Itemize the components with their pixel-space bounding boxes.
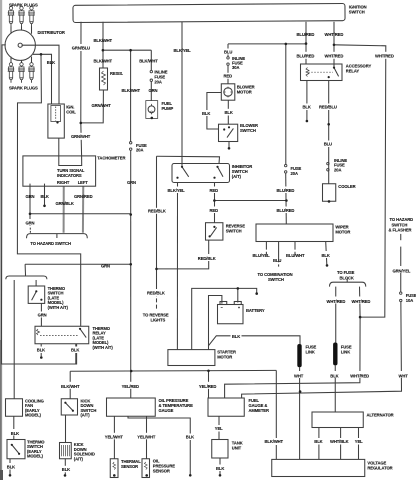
svg-text:BLK/WHT: BLK/WHT [139, 58, 158, 63]
svg-text:BLU/RED: BLU/RED [297, 53, 315, 58]
svg-text:(A/T): (A/T) [232, 174, 242, 179]
svg-text:SPARK PLUGS: SPARK PLUGS [9, 2, 38, 7]
svg-text:BLK: BLK [232, 334, 240, 339]
svg-text:YEL/RED: YEL/RED [199, 384, 216, 389]
svg-text:GRN: GRN [127, 180, 136, 185]
svg-text:GRN: GRN [26, 220, 35, 225]
svg-text:BATTERY: BATTERY [246, 308, 265, 313]
svg-text:WHT/RED: WHT/RED [350, 374, 369, 379]
svg-text:COIL: COIL [66, 110, 76, 115]
svg-text:INDICATORS: INDICATORS [57, 173, 82, 178]
svg-text:20A: 20A [291, 171, 298, 176]
svg-text:TO HAZARD SWITCH: TO HAZARD SWITCH [30, 241, 71, 246]
svg-text:SPARK PLUGS: SPARK PLUGS [9, 86, 38, 91]
svg-text:FUEL: FUEL [162, 101, 173, 106]
svg-text:BLK: BLK [330, 374, 338, 379]
svg-text:BLU: BLU [273, 258, 281, 263]
svg-text:BLK: BLK [7, 464, 15, 469]
svg-text:RELAY: RELAY [346, 69, 360, 74]
svg-text:TO REVERSE: TO REVERSE [143, 312, 169, 317]
svg-text:WHT/RED: WHT/RED [325, 53, 344, 58]
svg-text:BLK: BLK [202, 111, 210, 116]
svg-text:GRN/WHT: GRN/WHT [92, 103, 112, 108]
svg-text:MOTOR: MOTOR [237, 90, 252, 95]
svg-text:TO HAZARD: TO HAZARD [390, 217, 414, 222]
svg-text:BLK/YEL: BLK/YEL [168, 188, 186, 193]
svg-text:BLU: BLU [224, 49, 232, 54]
svg-text:BLK/WHT: BLK/WHT [265, 439, 284, 444]
svg-text:BLU/RED: BLU/RED [297, 32, 315, 37]
svg-text:SENSOR: SENSOR [121, 464, 138, 469]
svg-text:(A/T): (A/T) [81, 413, 91, 418]
svg-text:BLK: BLK [303, 105, 311, 110]
svg-text:BLU/RED: BLU/RED [277, 188, 295, 193]
svg-text:BLK: BLK [41, 194, 49, 199]
svg-text:WHT/BLK: WHT/BLK [330, 439, 349, 444]
svg-text:YEL: YEL [215, 426, 223, 431]
svg-text:BLK: BLK [62, 467, 70, 472]
svg-text:LEFT: LEFT [78, 180, 89, 185]
svg-text:GRN/YEL: GRN/YEL [393, 269, 411, 274]
svg-text:BLK/YEL: BLK/YEL [174, 48, 192, 53]
svg-text:LINK: LINK [341, 350, 350, 355]
svg-text:BLK: BLK [216, 466, 224, 471]
svg-text:GRN: GRN [149, 88, 158, 93]
svg-text:WHT/RED: WHT/RED [327, 299, 346, 304]
svg-text:GRN/WHT: GRN/WHT [71, 134, 91, 139]
svg-text:REGULATOR: REGULATOR [367, 466, 392, 471]
svg-text:MODEL): MODEL) [27, 454, 44, 459]
svg-text:MOTOR: MOTOR [217, 355, 232, 360]
svg-text:GRN/BLU: GRN/BLU [72, 45, 90, 50]
svg-text:30A: 30A [232, 65, 239, 70]
svg-text:RESIS.: RESIS. [110, 71, 123, 76]
svg-text:GRN: GRN [38, 313, 47, 318]
svg-text:WHT/RED: WHT/RED [352, 299, 371, 304]
svg-text:(A/T): (A/T) [74, 456, 84, 461]
svg-text:SENSOR: SENSOR [153, 468, 170, 473]
svg-text:TO COMBINATION: TO COMBINATION [258, 272, 293, 277]
svg-text:LINK: LINK [306, 350, 315, 355]
svg-text:DISTRIBUTOR: DISTRIBUTOR [38, 30, 65, 35]
svg-text:10A: 10A [406, 298, 413, 303]
svg-text:20A: 20A [334, 167, 341, 172]
svg-text:MODEL): MODEL) [25, 413, 42, 418]
svg-text:COOLER: COOLER [338, 184, 355, 189]
svg-text:GRN: GRN [26, 194, 35, 199]
svg-text:RED: RED [224, 74, 233, 79]
svg-text:& FLASHER: & FLASHER [389, 228, 412, 233]
svg-text:BLOCK: BLOCK [340, 276, 354, 281]
svg-text:BLK/WHT: BLK/WHT [94, 58, 113, 63]
svg-text:SWITCH: SWITCH [240, 128, 256, 133]
svg-text:BLU/RED: BLU/RED [277, 208, 295, 213]
svg-text:BLK: BLK [225, 110, 233, 115]
svg-text:RED: RED [210, 208, 219, 213]
svg-text:RED/BLK: RED/BLK [198, 256, 216, 261]
svg-text:RED: RED [210, 188, 219, 193]
svg-text:YEL/RED: YEL/RED [122, 384, 139, 389]
svg-text:PUMP: PUMP [162, 106, 174, 111]
svg-text:BLK: BLK [71, 348, 79, 353]
svg-text:ALTERNATOR: ALTERNATOR [367, 412, 394, 417]
svg-text:IGN.: IGN. [66, 104, 74, 109]
svg-text:MOTOR: MOTOR [335, 230, 350, 235]
svg-text:BLK/WHT: BLK/WHT [94, 38, 113, 43]
svg-text:BLK: BLK [314, 439, 322, 444]
svg-text:BLU/YEL: BLU/YEL [253, 253, 271, 258]
svg-text:WHT: WHT [294, 374, 304, 379]
svg-text:TO FUSE: TO FUSE [337, 270, 355, 275]
svg-text:BLK: BLK [11, 431, 19, 436]
svg-text:LIGHTS: LIGHTS [151, 318, 166, 323]
svg-text:YEL/WHT: YEL/WHT [105, 434, 124, 439]
svg-text:RED/BLU: RED/BLU [319, 105, 337, 110]
svg-text:BLU: BLU [324, 142, 332, 147]
svg-text:SWITCH: SWITCH [349, 10, 365, 15]
svg-text:BLK: BLK [47, 60, 55, 65]
svg-text:BLU/WHT: BLU/WHT [286, 253, 305, 258]
svg-text:GRN/BLK: GRN/BLK [56, 201, 74, 206]
svg-text:YEL/WHT: YEL/WHT [137, 434, 156, 439]
svg-text:YEL: YEL [355, 439, 363, 444]
svg-text:GRN: GRN [101, 263, 110, 268]
svg-text:WHT: WHT [399, 374, 409, 379]
svg-text:UNIT: UNIT [232, 446, 242, 451]
svg-text:TACHOMETER: TACHOMETER [97, 156, 125, 161]
svg-text:RED/BLK: RED/BLK [148, 209, 166, 214]
svg-text:BLK: BLK [186, 435, 194, 440]
svg-text:SWITCH: SWITCH [226, 229, 242, 234]
svg-text:(WITH A/T): (WITH A/T) [93, 345, 114, 350]
svg-text:20A: 20A [136, 148, 143, 153]
svg-text:BLK/WHT: BLK/WHT [122, 88, 141, 93]
svg-text:SWITCH: SWITCH [392, 222, 408, 227]
svg-text:BLK: BLK [37, 348, 45, 353]
svg-text:BLK/WHT: BLK/WHT [61, 384, 80, 389]
svg-text:(WITH A/T): (WITH A/T) [48, 305, 69, 310]
svg-text:BLK: BLK [322, 253, 330, 258]
svg-text:SWITCH: SWITCH [268, 277, 284, 282]
svg-text:WHT/RED: WHT/RED [325, 32, 344, 37]
svg-text:RED/BLK: RED/BLK [147, 291, 165, 296]
svg-text:AMMETER: AMMETER [249, 408, 269, 413]
svg-text:RIGHT: RIGHT [57, 180, 70, 185]
svg-text:20A: 20A [154, 80, 161, 85]
svg-text:WHT/RED: WHT/RED [375, 53, 394, 58]
svg-text:GAUGE: GAUGE [159, 408, 174, 413]
svg-text:GRN/RED: GRN/RED [74, 194, 93, 199]
